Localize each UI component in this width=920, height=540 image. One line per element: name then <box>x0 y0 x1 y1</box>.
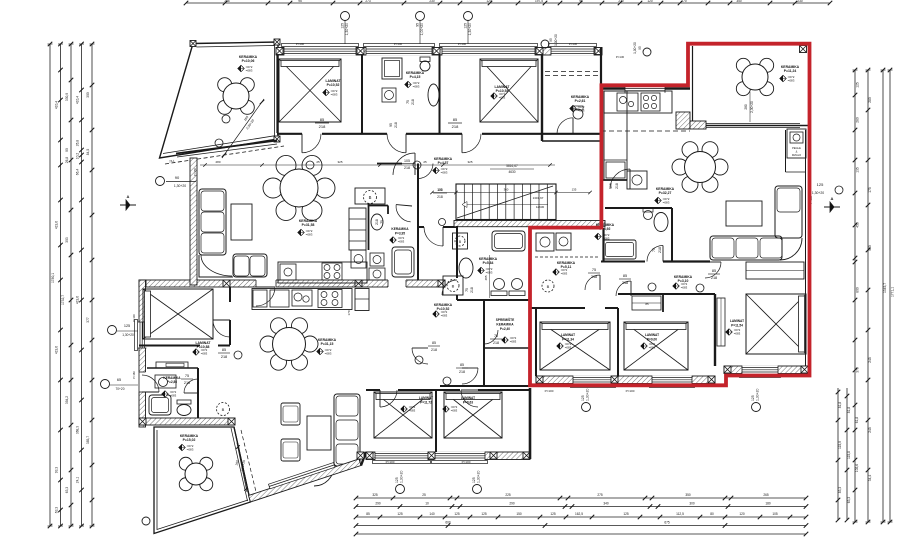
stairwell door arc <box>418 164 433 179</box>
terrace lower-left label <box>179 434 199 452</box>
svg-text:105: 105 <box>772 512 778 516</box>
svg-text:290: 290 <box>375 502 381 506</box>
svg-text:26,8: 26,8 <box>76 140 80 147</box>
svg-text:=083: =083 <box>788 79 795 83</box>
svg-text:LAMINAT: LAMINAT <box>730 319 744 323</box>
svg-text:1,30+20: 1,30+20 <box>756 389 760 401</box>
svg-text:=083: =083 <box>413 85 420 89</box>
svg-text:675: 675 <box>664 521 670 525</box>
svg-text:75: 75 <box>465 288 469 292</box>
living room annotation circles <box>200 160 555 169</box>
overhang dashes red <box>545 72 690 132</box>
left dimension lines <box>48 42 95 529</box>
svg-text:218: 218 <box>615 183 619 189</box>
svg-text:P=4,15: P=4,15 <box>410 75 421 79</box>
bath P584 label <box>478 257 498 275</box>
svg-text:800: 800 <box>856 287 860 293</box>
boiler square lower hall2 <box>443 276 463 295</box>
svg-text:1732,7: 1732,7 <box>61 295 65 305</box>
terrace lower-left table <box>179 457 213 491</box>
svg-text:95: 95 <box>416 23 420 27</box>
svg-text:SPREMIŠTE: SPREMIŠTE <box>496 317 514 322</box>
svg-text:P=100: P=100 <box>296 42 305 46</box>
landing door label <box>433 188 447 199</box>
room label living top-left <box>298 219 318 237</box>
bedroom divider walls lower <box>366 390 530 452</box>
svg-text:1,00+20: 1,00+20 <box>420 23 424 35</box>
sofa top-left living <box>199 189 267 277</box>
svg-text:70+20: 70+20 <box>116 387 125 391</box>
svg-text:61,8: 61,8 <box>855 417 859 424</box>
section marker A right <box>809 182 843 212</box>
svg-text:135: 135 <box>856 167 860 173</box>
svg-text:P=10,52: P=10,52 <box>327 83 340 87</box>
terrace top-left dashed overhang <box>165 146 284 164</box>
left exterior wall <box>139 280 146 427</box>
angled exterior wall living <box>249 459 362 502</box>
svg-text:218: 218 <box>658 247 662 253</box>
svg-text:95: 95 <box>638 46 642 50</box>
svg-text:=083: =083 <box>441 314 448 318</box>
svg-text:275: 275 <box>597 493 603 497</box>
svg-text:85: 85 <box>460 363 464 367</box>
red bottom corner boxes <box>536 376 543 383</box>
room label bath lower <box>162 376 181 398</box>
svg-text:120: 120 <box>486 0 492 3</box>
wall between bath and bedroom2 top <box>439 55 441 134</box>
svg-text:85: 85 <box>222 348 226 352</box>
svg-text:112,5: 112,5 <box>676 512 684 516</box>
svg-text:280: 280 <box>215 160 220 164</box>
bath P584 door <box>442 280 474 295</box>
svg-text:P=160: P=160 <box>132 371 136 379</box>
top dimension line <box>184 0 833 5</box>
bedroom wing corner boxes <box>366 452 373 459</box>
svg-text:125: 125 <box>581 395 585 401</box>
svg-text:180: 180 <box>765 502 771 506</box>
coffee table lower living <box>307 416 331 450</box>
room label living lower <box>317 338 337 356</box>
wall x530 lower section <box>529 388 532 459</box>
svg-text:115,9: 115,9 <box>838 441 842 449</box>
red bottom windows <box>571 366 781 388</box>
svg-text:=083: =083 <box>681 286 688 290</box>
svg-text:85: 85 <box>623 274 627 278</box>
bath top-left apartment walls <box>369 204 389 250</box>
svg-text:B: B <box>547 284 550 289</box>
svg-text:1301,67: 1301,67 <box>533 196 544 200</box>
svg-text:85: 85 <box>366 512 370 516</box>
stair landing dimension texts <box>490 164 545 209</box>
red bedroom closet <box>632 296 661 310</box>
bedroom bottom windows <box>373 452 488 464</box>
svg-text:455: 455 <box>856 222 860 228</box>
svg-text:81,8: 81,8 <box>838 402 842 409</box>
bath top-left label <box>375 205 412 244</box>
svg-text:1,30+20: 1,30+20 <box>400 471 404 483</box>
kitchen corner block <box>676 112 690 129</box>
svg-text:2,30+20: 2,30+20 <box>750 101 754 113</box>
svg-text:419,6: 419,6 <box>55 346 59 354</box>
svg-text:600: 600 <box>445 521 451 525</box>
svg-text:960: 960 <box>868 245 872 251</box>
svg-text:162,5: 162,5 <box>575 512 583 516</box>
svg-text:125: 125 <box>856 82 860 88</box>
red living label <box>655 187 675 205</box>
svg-text:330,9: 330,9 <box>65 93 69 101</box>
bath top-left fixtures <box>369 214 414 280</box>
corridor wall lower apartment <box>147 287 230 418</box>
svg-text:P=100: P=100 <box>462 460 471 464</box>
armchairs lower living <box>281 403 300 461</box>
kitchen counter lower apartment <box>252 289 352 310</box>
top block right wall <box>541 55 543 141</box>
right dimension lines <box>853 68 893 525</box>
svg-text:280: 280 <box>868 97 872 103</box>
svg-text:81,8: 81,8 <box>847 407 851 414</box>
bath P584 fixtures <box>453 231 526 296</box>
room label bedroom U1 <box>323 79 342 97</box>
svg-text:PEGLE: PEGLE <box>792 146 801 150</box>
svg-text:245: 245 <box>868 357 872 363</box>
red living pegle nook wall <box>785 130 787 172</box>
svg-text:Δ: Δ <box>796 150 798 154</box>
boiler top-left apartment <box>355 188 385 204</box>
svg-text:125: 125 <box>472 477 476 483</box>
living left wall top apartment <box>190 158 197 285</box>
corridor hall bottom wall <box>277 133 601 135</box>
svg-text:85: 85 <box>453 117 458 122</box>
svg-text:=083: =083 <box>201 352 208 356</box>
terrace lower-left outline <box>154 427 251 534</box>
svg-text:1345,7: 1345,7 <box>883 283 887 293</box>
svg-text:=083: =083 <box>306 233 313 237</box>
wall under stairs <box>418 221 605 228</box>
svg-text:95: 95 <box>579 0 583 3</box>
svg-text:1,30+20: 1,30+20 <box>174 184 186 188</box>
bed top-left bedroom <box>279 59 341 122</box>
wc door arc <box>557 118 573 134</box>
left wall window and door openings <box>135 320 160 393</box>
svg-text:=083: =083 <box>398 240 405 244</box>
staircase <box>456 184 556 220</box>
svg-text:125: 125 <box>817 182 824 187</box>
svg-text:75: 75 <box>406 100 410 104</box>
room labels lower bedrooms <box>401 396 475 413</box>
dining table top-left living <box>263 155 335 220</box>
svg-text:1771,1: 1771,1 <box>891 287 895 297</box>
svg-text:=083: =083 <box>486 271 493 275</box>
svg-text:377: 377 <box>86 317 90 323</box>
svg-text:75: 75 <box>592 268 596 272</box>
svg-text:485: 485 <box>484 275 488 280</box>
svg-text:P=9,00: P=9,00 <box>647 338 657 342</box>
svg-text:P=10,06: P=10,06 <box>242 59 255 63</box>
window labels below bedroom wall <box>386 460 482 494</box>
svg-text:270: 270 <box>681 0 687 3</box>
svg-text:5816,67: 5816,67 <box>506 164 518 168</box>
corridor room label <box>433 157 453 175</box>
svg-text:230: 230 <box>618 0 624 3</box>
svg-text:410,4: 410,4 <box>76 96 80 104</box>
svg-text:P=100: P=100 <box>386 460 395 464</box>
svg-text:218: 218 <box>404 166 410 170</box>
svg-text:218: 218 <box>221 355 227 359</box>
hall bottom wall segment <box>440 385 530 387</box>
entry annotation 90 <box>156 167 198 188</box>
svg-text:P=11,72: P=11,72 <box>420 401 432 405</box>
angled wall corner step <box>357 452 366 466</box>
svg-text:10,2: 10,2 <box>76 153 80 160</box>
svg-text:LAMINAT: LAMINAT <box>645 333 659 337</box>
svg-text:410,4: 410,4 <box>55 101 59 109</box>
bed top bedroom2 <box>480 59 538 122</box>
bath lower-left fixtures <box>149 375 191 416</box>
svg-text:=083: =083 <box>510 340 517 344</box>
svg-text:370: 370 <box>856 367 860 373</box>
svg-text:419,6: 419,6 <box>76 296 80 304</box>
svg-text:125: 125 <box>550 512 556 516</box>
svg-text:25: 25 <box>423 160 427 164</box>
bedroom U1 left wall (terrace party) <box>276 55 278 133</box>
red kitchen counters <box>604 91 672 180</box>
svg-text:=083: =083 <box>409 409 416 413</box>
party wall door arc <box>256 287 275 306</box>
svg-text:218: 218 <box>459 370 465 374</box>
svg-text:175: 175 <box>868 187 872 193</box>
svg-text:225: 225 <box>505 493 511 497</box>
svg-text:85: 85 <box>320 117 325 122</box>
party wall corner boxes <box>139 280 146 287</box>
terrace red corner box <box>800 46 807 53</box>
svg-text:300: 300 <box>86 92 90 98</box>
svg-text:325: 325 <box>337 160 342 164</box>
svg-text:280: 280 <box>856 117 860 123</box>
svg-text:218: 218 <box>431 348 437 352</box>
svg-text:P=130: P=130 <box>569 42 578 46</box>
svg-text:150: 150 <box>516 512 522 516</box>
svg-text:LAMINAT: LAMINAT <box>561 333 575 337</box>
svg-text:125: 125 <box>623 512 629 516</box>
svg-text:230: 230 <box>797 0 803 3</box>
svg-text:1780,1: 1780,1 <box>51 273 55 283</box>
room label bedroom lower <box>193 341 212 356</box>
svg-text:419,6: 419,6 <box>55 221 59 229</box>
top wall corner boxes <box>276 48 283 55</box>
svg-text:1,30+20: 1,30+20 <box>122 333 134 337</box>
svg-text:218: 218 <box>319 124 326 129</box>
room label bedroom2 <box>491 85 511 100</box>
red kitchen lower walls <box>601 171 647 189</box>
svg-text:P=130: P=130 <box>616 55 625 59</box>
red bottom window labels <box>545 389 761 412</box>
svg-text:=083: =083 <box>331 93 338 97</box>
svg-text:25: 25 <box>422 493 426 497</box>
section marker A left <box>120 194 136 210</box>
terrace lower-left diag dim <box>235 443 248 492</box>
svg-text:350: 350 <box>736 0 742 3</box>
bed lower-left bedroom <box>143 289 213 339</box>
terrace red label <box>780 65 800 83</box>
svg-text:95: 95 <box>298 0 302 3</box>
svg-text:125: 125 <box>464 23 468 29</box>
svg-text:=083: =083 <box>663 201 670 205</box>
hall lower room label <box>433 303 453 318</box>
terrace top-left room label <box>238 55 258 73</box>
svg-text:325: 325 <box>467 160 472 164</box>
left wall window annotations <box>101 314 140 391</box>
storage room label <box>484 317 517 345</box>
svg-text:230: 230 <box>429 0 435 3</box>
door label bedroom lower + annot <box>213 320 242 359</box>
svg-text:135: 135 <box>572 188 577 192</box>
bottom wall of bath block <box>139 418 235 425</box>
top bathroom fixtures <box>382 57 439 106</box>
svg-text:394,2: 394,2 <box>65 396 69 404</box>
svg-text:P=100: P=100 <box>626 389 635 393</box>
svg-text:P=100: P=100 <box>545 389 554 393</box>
sofa lower living <box>314 394 360 486</box>
rug top-left living <box>231 204 252 240</box>
svg-text:P=11,24: P=11,24 <box>784 69 797 73</box>
terrace red table <box>736 58 773 95</box>
red shower room <box>535 228 604 276</box>
svg-text:218: 218 <box>394 122 398 128</box>
svg-text:=083: =083 <box>170 394 177 398</box>
red hall B circle <box>542 280 554 292</box>
svg-text:B: B <box>222 407 225 412</box>
red bath fixtures <box>603 208 668 259</box>
top wall windows <box>282 44 597 56</box>
svg-text:KERAMIKA: KERAMIKA <box>391 227 409 231</box>
svg-text:125: 125 <box>481 512 487 516</box>
red beds <box>540 262 806 370</box>
svg-text:63,3: 63,3 <box>65 487 69 494</box>
terrace lower-left inner glass wall <box>231 427 258 502</box>
red apartment kitchen top wall <box>601 84 690 92</box>
svg-text:DIZALO: DIZALO <box>792 153 801 157</box>
dresser lower bedroom <box>156 362 188 368</box>
svg-text:95: 95 <box>389 123 393 127</box>
svg-text:25: 25 <box>316 160 320 164</box>
svg-text:125: 125 <box>341 23 345 29</box>
svg-text:218: 218 <box>411 99 415 105</box>
svg-text:63,3: 63,3 <box>847 497 851 504</box>
svg-text:105: 105 <box>609 183 613 189</box>
svg-text:90: 90 <box>65 148 69 152</box>
bottom dimension lines <box>354 493 809 536</box>
svg-text:170: 170 <box>347 310 351 315</box>
svg-text:P=3,95: P=3,95 <box>395 232 405 236</box>
door arcs lower hall <box>412 341 478 385</box>
svg-text:105: 105 <box>404 159 410 163</box>
svg-text:P=100: P=100 <box>132 314 136 322</box>
svg-text:4630: 4630 <box>508 170 515 174</box>
svg-text:75: 75 <box>185 374 189 378</box>
svg-text:385,7: 385,7 <box>86 436 90 444</box>
left dimension labels <box>51 92 90 513</box>
bedroom-bath divider wall <box>139 345 230 347</box>
svg-text:A: A <box>831 196 834 201</box>
terrace red dim <box>744 92 754 122</box>
svg-text:=083: =083 <box>451 409 458 413</box>
svg-text:10: 10 <box>425 502 429 506</box>
svg-text:=083: =083 <box>325 352 332 356</box>
svg-text:24,1: 24,1 <box>76 477 80 484</box>
svg-text:P=2,61: P=2,61 <box>575 99 586 103</box>
svg-text:280: 280 <box>744 104 748 110</box>
svg-text:105: 105 <box>437 188 443 192</box>
svg-text:P=32,27: P=32,27 <box>659 191 672 195</box>
svg-text:218: 218 <box>493 341 499 345</box>
storage room walls <box>484 300 530 386</box>
svg-text:12630: 12630 <box>536 205 545 209</box>
in-plan dim line stairs <box>430 188 592 195</box>
svg-text:=083: =083 <box>565 346 572 350</box>
door arcs lower bedrooms <box>380 390 478 407</box>
svg-text:P=5,84: P=5,84 <box>483 261 494 265</box>
terrace red left wall inner <box>692 46 694 121</box>
kitchen top-left apartment <box>278 208 367 283</box>
corridor east wall top <box>600 48 602 86</box>
svg-text:LAMINAT: LAMINAT <box>419 396 433 400</box>
red apartment entry door <box>609 169 630 189</box>
landing door arc <box>424 227 443 246</box>
svg-text:=083: =083 <box>187 448 194 452</box>
svg-text:=083: =083 <box>649 346 656 350</box>
red bedroom divider walls <box>530 294 715 376</box>
svg-text:218: 218 <box>470 287 474 293</box>
svg-text:90: 90 <box>175 175 180 180</box>
party wall horizontal main <box>139 279 445 288</box>
svg-text:1,30+20: 1,30+20 <box>812 191 824 195</box>
svg-text:75: 75 <box>380 220 384 224</box>
terrace red window wall <box>690 121 808 129</box>
right bottom short dimension lines <box>836 388 850 522</box>
bath P584 walls <box>457 226 530 300</box>
corridor entry walls <box>377 141 601 283</box>
terrace top-left table <box>218 78 255 115</box>
red hall label <box>673 275 693 290</box>
svg-text:360: 360 <box>504 188 509 192</box>
svg-text:P=100: P=100 <box>458 42 467 46</box>
svg-text:A: A <box>127 194 130 199</box>
terrace top-left corner boxes <box>190 41 196 47</box>
tall cabinet fridge lower kitchen <box>347 289 369 316</box>
svg-text:368,3: 368,3 <box>76 426 80 434</box>
svg-text:218: 218 <box>375 219 379 225</box>
svg-text:63,3: 63,3 <box>55 507 59 514</box>
landing annotation circle <box>439 219 446 226</box>
svg-text:95: 95 <box>549 38 553 42</box>
svg-text:103,6: 103,6 <box>855 464 859 472</box>
right dimension labels <box>838 82 895 503</box>
svg-text:KERAMIKA: KERAMIKA <box>496 323 514 327</box>
door arcs corridor top <box>302 134 481 153</box>
svg-text:290: 290 <box>509 502 515 506</box>
svg-text:300: 300 <box>689 502 695 506</box>
red wardrobe strip bedroom3 <box>717 298 725 346</box>
wc corridor room label <box>570 95 590 119</box>
wall between bedroom1 and bath top <box>361 55 363 134</box>
svg-text:115,8: 115,8 <box>847 451 851 459</box>
svg-text:140: 140 <box>429 512 435 516</box>
top window annotations <box>296 12 651 60</box>
svg-text:=083: =083 <box>441 171 448 175</box>
svg-text:=083: =083 <box>499 96 506 100</box>
entry door top-left apartment <box>393 153 415 175</box>
svg-text:P=130: P=130 <box>394 42 403 46</box>
